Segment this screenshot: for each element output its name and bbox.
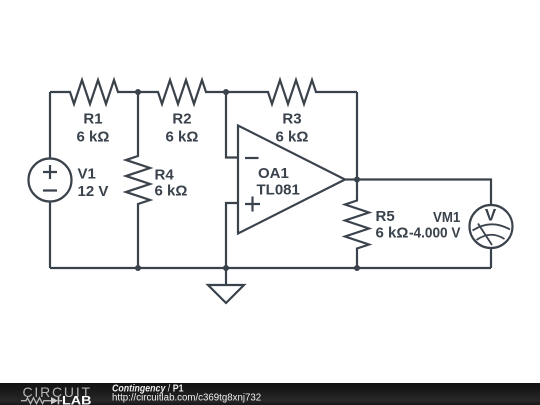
wire R3 right corner down to output node bbox=[356, 92, 358, 180]
svg-text:R5: R5 bbox=[376, 208, 395, 225]
svg-text:http://circuitlab.com/c369tg8x: http://circuitlab.com/c369tg8xnj732 bbox=[112, 393, 261, 404]
svg-text:OA1: OA1 bbox=[258, 165, 289, 182]
resistor R1 bbox=[50, 80, 138, 104]
resistor R5 bbox=[345, 180, 369, 269]
svg-text:V1: V1 bbox=[78, 166, 96, 183]
resistor R4 bbox=[126, 92, 150, 268]
wire left rail bottom bbox=[49, 202, 51, 269]
svg-text:V: V bbox=[485, 206, 497, 225]
wire bottom rail bbox=[50, 267, 491, 269]
label OA1 value bbox=[257, 165, 300, 199]
wire non-inverting input bbox=[226, 203, 238, 268]
svg-text:6 kΩ: 6 kΩ bbox=[276, 129, 309, 146]
footer url text bbox=[112, 393, 261, 404]
svg-text:6 kΩ: 6 kΩ bbox=[376, 225, 409, 242]
wire op-amp output bbox=[345, 178, 357, 180]
node junction dot R1-R4 bbox=[135, 89, 141, 95]
label voltmeter V glyph bbox=[485, 206, 497, 225]
svg-text:R4: R4 bbox=[155, 167, 175, 184]
svg-text:TL081: TL081 bbox=[257, 182, 300, 199]
label R1 value bbox=[77, 111, 110, 146]
label VM1 value bbox=[409, 209, 461, 242]
svg-text:6 kΩ: 6 kΩ bbox=[166, 129, 199, 146]
logo CircuitLab bbox=[21, 384, 92, 405]
svg-text:R1: R1 bbox=[83, 111, 102, 128]
op-amp OA1 bbox=[238, 126, 345, 234]
label R3 value bbox=[276, 111, 309, 146]
footer title text bbox=[112, 384, 184, 395]
svg-text:R3: R3 bbox=[282, 111, 301, 128]
svg-text:12 V: 12 V bbox=[78, 183, 109, 200]
wire voltmeter bottom bbox=[490, 248, 492, 268]
svg-text:6 kΩ: 6 kΩ bbox=[155, 183, 188, 200]
voltage source V1 bbox=[29, 159, 72, 202]
node junction dot R5 bottom bbox=[354, 265, 360, 271]
node junction dot output bbox=[354, 177, 360, 183]
svg-text:-4.000 V: -4.000 V bbox=[409, 225, 461, 242]
svg-text:VM1: VM1 bbox=[433, 209, 460, 226]
label R2 value bbox=[166, 111, 199, 146]
svg-text:LAB: LAB bbox=[62, 395, 92, 405]
resistor R3 bbox=[226, 80, 357, 104]
wire inverting input bbox=[226, 92, 238, 158]
node junction dot R4 bottom bbox=[135, 265, 141, 271]
voltmeter VM1 bbox=[470, 205, 513, 248]
wire left rail top bbox=[49, 92, 51, 159]
svg-text:6 kΩ: 6 kΩ bbox=[77, 129, 110, 146]
svg-text:R2: R2 bbox=[172, 111, 191, 128]
resistor R2 bbox=[138, 80, 226, 104]
ground bbox=[208, 268, 244, 303]
node junction dot R2-R3 bbox=[223, 89, 229, 95]
wire output node to voltmeter bbox=[357, 180, 491, 206]
node junction dot ground bbox=[223, 265, 229, 271]
footer bar bbox=[0, 383, 540, 405]
label V1 value bbox=[78, 166, 109, 201]
label R5 value bbox=[376, 208, 409, 242]
label R4 value bbox=[155, 167, 188, 200]
